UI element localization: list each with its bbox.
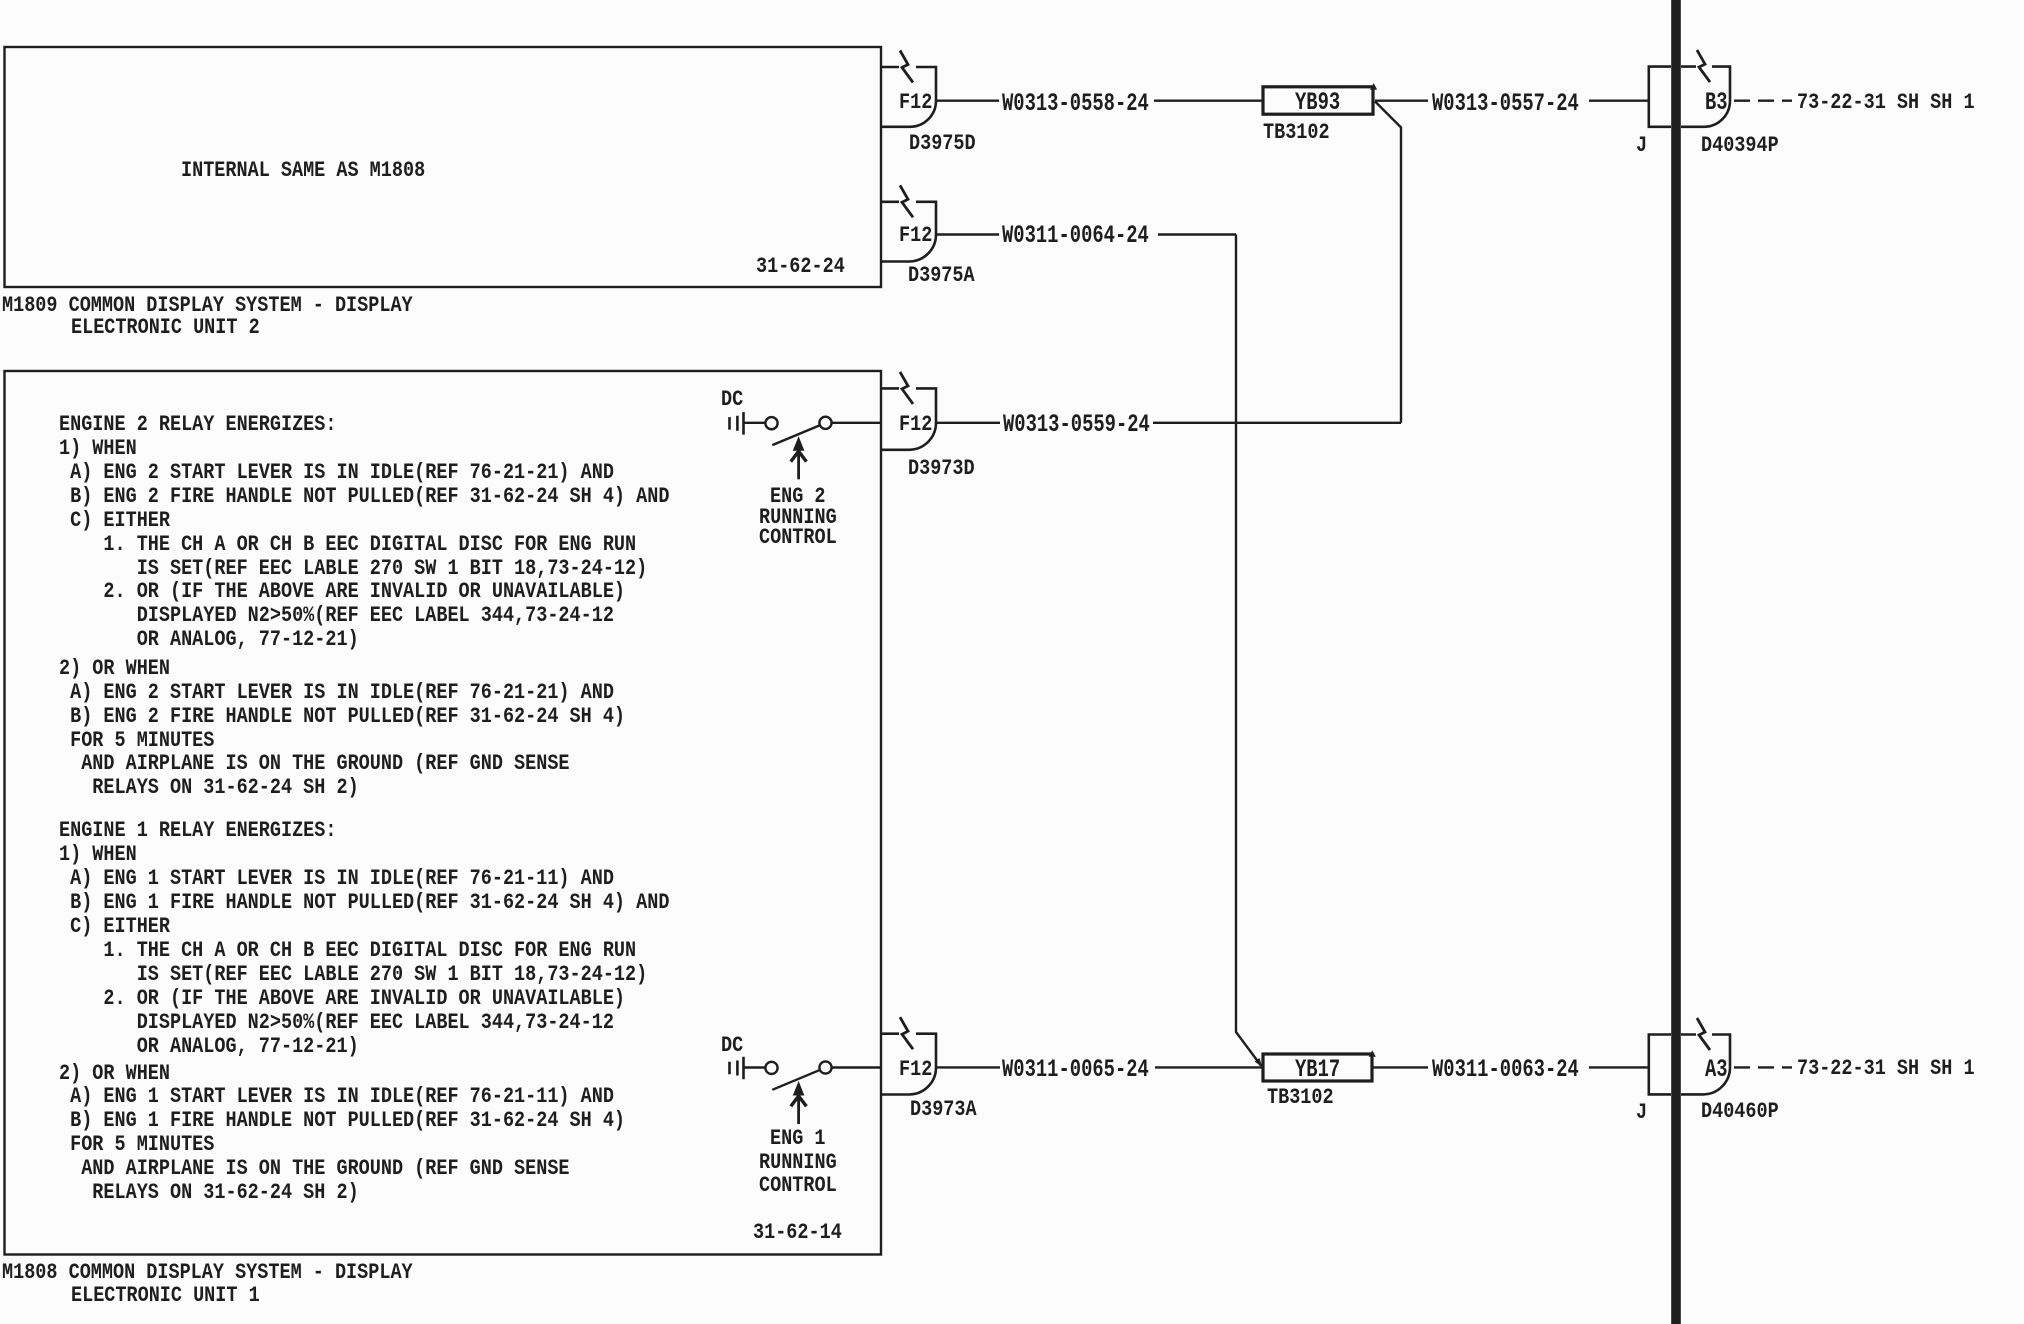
note text: ENGINE 1 RELAY ENERGIZES conditions part 2 [59,1062,625,1205]
relay contact circle right (ENG 1 running control relay) [819,1061,831,1073]
label: INTERNAL SAME AS M1808 (inside M1809 box) [181,159,425,181]
wire number W0311-0065-24 [1002,1057,1149,1082]
wire number W0311-0063-24 [1432,1057,1579,1082]
connector D40394P pin B3 receptacle-side shape [1681,67,1730,127]
off-sheet reference 73-22-31 SH SH 1 (lower) [1797,1057,1975,1079]
wire from contact to equipment box edge (ENG 1 running control relay) [832,1066,881,1068]
relay name ENG 2 line 1 [770,485,825,507]
lightning bolt on connector D3973D pin F12 [900,372,913,404]
relay contact circle right (ENG 2 running control relay) [819,417,831,429]
equipment title M1809 line 2 [71,316,260,338]
equipment title M1809 line 1 [2,294,413,316]
dashed off-sheet wire from D40394P pin B3 [1734,99,1792,101]
connector D3975D pin F12 (disconnect symbol at equipment box edge) [881,67,936,127]
lightning bolt on connector D3973A pin F12 [900,1017,913,1049]
pin label F12 of D3975A [899,224,932,246]
off-sheet reference 73-22-31 SH SH 1 (upper) [1797,91,1975,113]
relay name ENG 2 line 2 [759,506,837,528]
equipment title M1808 line 1 [2,1261,413,1283]
plug label J (lower connector) [1636,1101,1647,1123]
label 31-62-24 (M1809 box internal diagram ref) [756,255,845,277]
terminal block YB93 (TB3102) [1263,87,1373,114]
relay name ENG 2 line 3 [759,526,837,548]
note text: ENGINE 2 RELAY ENERGIZES conditions part 1 [59,413,669,652]
terminal block designator TB3102 (upper) [1263,121,1330,143]
relay actuator arrow (ENG 2 running control relay) [791,436,807,479]
pin label F12 of D3973D [899,413,932,435]
lightning bolt on connector D3975A pin F12 [900,185,913,217]
wire W0313-0558-24 from D3975D to terminal YB93 [936,99,1263,101]
terminal block designator TB3102 (lower) [1267,1086,1334,1108]
wire from DC source to contact (ENG 1 running control relay) [745,1066,766,1068]
relay contact circle left (ENG 1 running control relay) [765,1062,777,1074]
connector D40394P pin B3 plug-side rectangle (J) [1649,67,1671,127]
note text: ENGINE 2 RELAY ENERGIZES conditions part 2 [59,657,625,800]
equipment box M1808 (Display Electronic Unit 1) [5,371,882,1255]
pin label A3 of D40460P [1705,1057,1728,1082]
relay actuator arrow (ENG 1 running control relay) [791,1081,807,1124]
relay name ENG 1 line 3 [759,1174,837,1196]
terminal designator YB93 [1295,90,1340,115]
connector D40460P pin A3 receptacle-side shape [1681,1035,1730,1095]
arrowhead at end of W0311-0064-24 diagonal into YB17 left edge [1255,1058,1263,1067]
lightning bolt on connector D40460P pin A3 [1697,1018,1710,1050]
wire number W0313-0559-24 [1003,412,1150,437]
relay name ENG 1 line 2 [759,1151,837,1173]
equipment box M1809 (Display Electronic Unit 2) [5,47,882,287]
relay contact circle left (ENG 2 running control relay) [765,417,777,429]
wire W0313-0557-24 from YB93 to connector B3 [1375,99,1649,101]
relay name ENG 1 line 1 [770,1127,825,1149]
wire W0313-0559-24 from D3973D, runs right then up to YB93 [937,101,1401,422]
terminal designator YB17 [1295,1057,1340,1082]
arrow tick at YB93 top-right corner [1370,83,1377,89]
connector designator D3973D [908,457,975,479]
plug label J (upper connector) [1636,134,1647,156]
connector D3973D pin F12 (disconnect symbol at equipment box edge) [881,388,936,449]
lightning bolt on connector D40394P pin B3 [1697,50,1710,82]
DC power source bars (ENG 1 running control relay) [730,1057,744,1080]
wire number W0311-0064-24 [1002,223,1149,248]
pin label F12 of D3973A [899,1058,932,1080]
terminal block YB17 (TB3102) [1263,1054,1372,1081]
lightning bolt on connector D3975D pin F12 [900,51,913,83]
DC power source bars (ENG 2 running control relay) [730,412,744,435]
relay switch blade (ENG 2 running control relay) [772,426,819,446]
wire number W0313-0558-24 [1002,91,1149,116]
label DC (power source, ENG 2 relay) [721,388,743,410]
connector D3975A pin F12 (disconnect symbol at equipment box edge) [881,202,936,262]
label 31-62-14 (M1808 box internal diagram ref) [753,1221,842,1243]
note text: ENGINE 1 RELAY ENERGIZES conditions part 1 [59,819,669,1058]
label DC (power source, ENG 1 relay) [721,1034,743,1056]
connector designator D3973A [910,1098,977,1120]
wire W0311-0065-24 from D3973A to terminal YB17 [937,1066,1263,1068]
connector designator D40460P [1701,1100,1779,1122]
connector designator D3975A [908,264,975,286]
pin label F12 of D3975D [899,91,932,113]
relay switch blade (ENG 1 running control relay) [772,1070,819,1090]
connector D40460P pin A3 plug-side rectangle (J) [1649,1035,1671,1095]
production break line (thick vertical bus) [1671,0,1681,1324]
wire number W0313-0557-24 [1432,91,1579,116]
connector designator D40394P [1701,134,1779,156]
wire W0311-0063-24 from YB17 to connector A3 [1372,1066,1649,1068]
dashed off-sheet wire from D40460P pin A3 [1734,1066,1792,1068]
wire from contact to equipment box edge (ENG 2 running control relay) [832,422,881,424]
wire from DC source to contact (ENG 2 running control relay) [745,422,766,424]
connector D3973A pin F12 (disconnect symbol at equipment box edge) [881,1034,936,1095]
arrow tick at YB17 top-right corner [1369,1050,1376,1056]
pin label B3 of D40394P [1705,90,1728,115]
equipment title M1808 line 2 [71,1284,260,1306]
connector designator D3975D [909,132,976,154]
wire W0311-0064-24 from D3975A, runs right then down to YB17 [936,235,1261,1066]
